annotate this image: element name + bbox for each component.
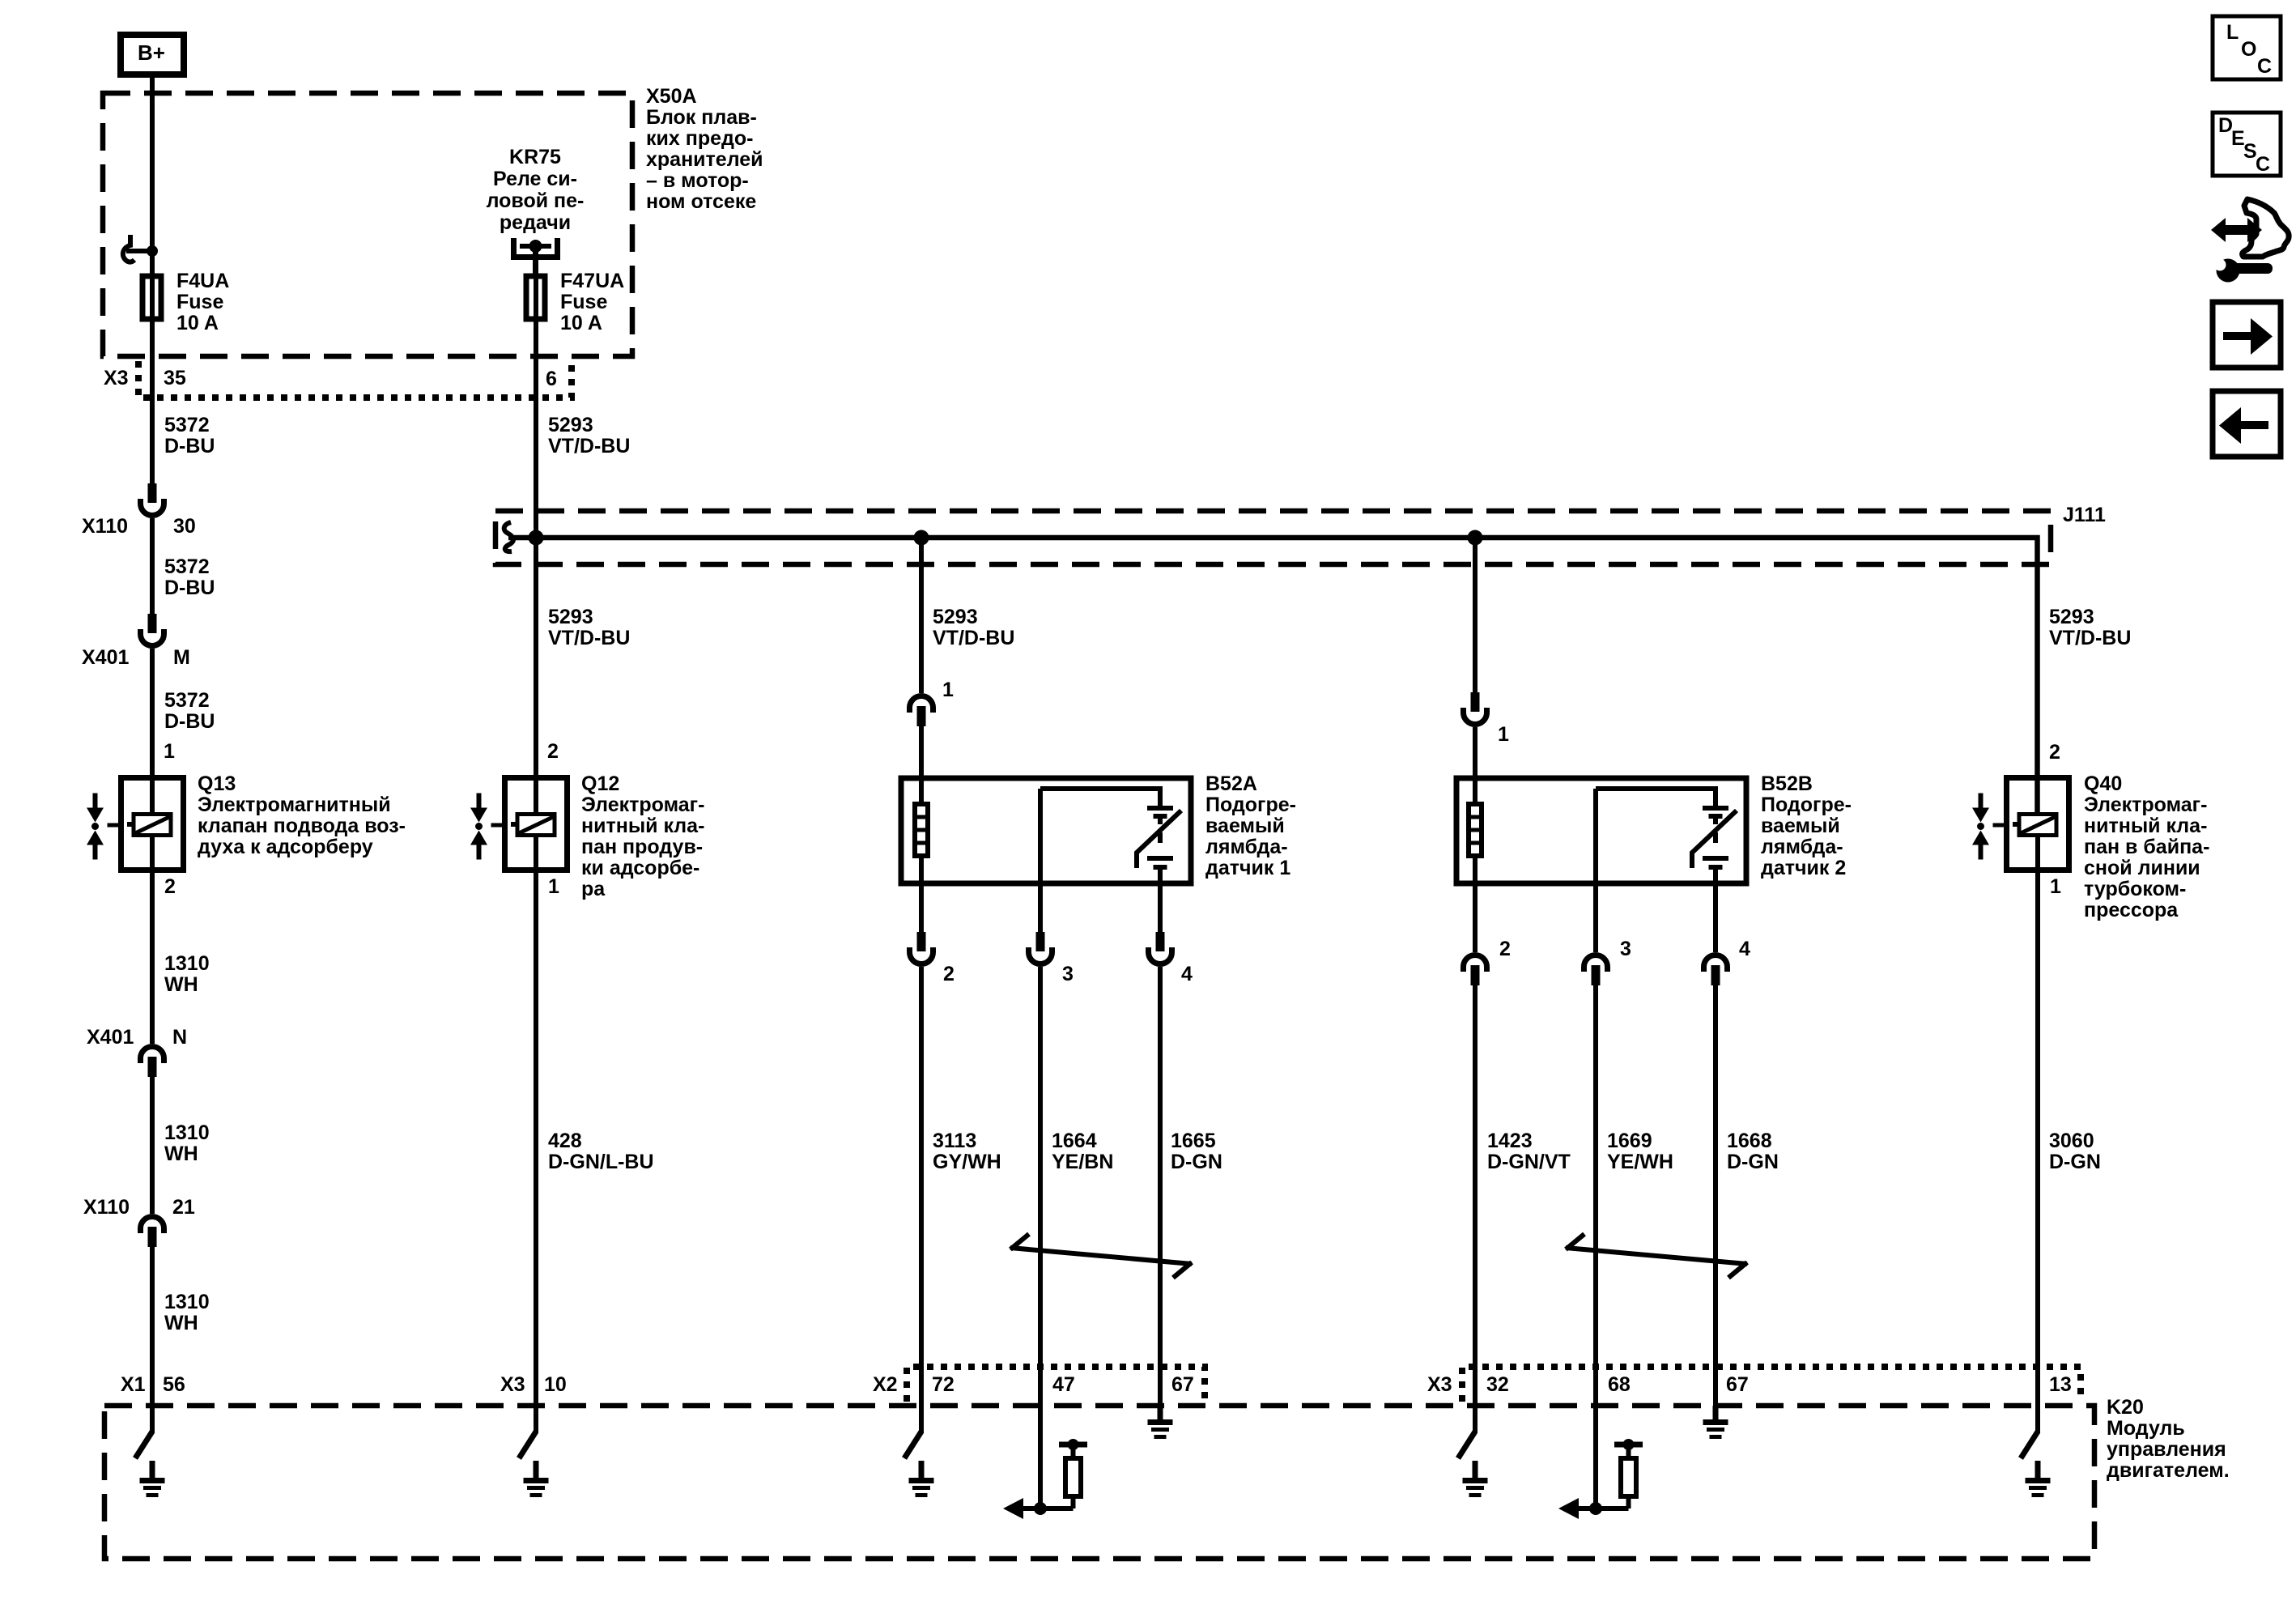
wire label 1665 D-GN <box>1171 1130 1222 1173</box>
wire: B52A pin1 internal <box>919 726 924 932</box>
svg-text:5372: 5372 <box>164 555 210 578</box>
switch to ground pin 72 <box>904 1432 921 1458</box>
svg-text:нитный кла-: нитный кла- <box>581 815 704 837</box>
svg-text:2: 2 <box>164 875 176 898</box>
svg-text:C: C <box>2256 153 2270 176</box>
svg-text:5293: 5293 <box>548 606 593 628</box>
svg-text:X1: X1 <box>121 1373 146 1396</box>
svg-text:Модуль: Модуль <box>2107 1417 2185 1440</box>
svg-text:5372: 5372 <box>164 414 210 436</box>
wire: B52A pin4 to K20 <box>1158 883 1163 1407</box>
svg-text:J111: J111 <box>2063 504 2106 526</box>
svg-text:5293: 5293 <box>2049 606 2094 628</box>
svg-text:F47UA: F47UA <box>560 270 624 292</box>
connector X2 dotted outline <box>907 1367 1205 1402</box>
pin 2 label Q40 <box>2049 741 2060 764</box>
label B52B <box>1761 772 1852 879</box>
pin 13 label <box>2049 1373 2072 1396</box>
icon arrow left box <box>2213 391 2281 457</box>
in-line connector X401 pin N <box>87 1026 187 1077</box>
svg-text:X110: X110 <box>82 515 128 538</box>
svg-text:Реле си-: Реле си- <box>493 168 577 190</box>
svg-text:5293: 5293 <box>933 606 978 628</box>
connector B52A pin 2 <box>910 932 955 985</box>
wire label 1310 WH (3) <box>164 1291 210 1334</box>
svg-text:Подогре-: Подогре- <box>1205 794 1296 816</box>
svg-text:1: 1 <box>2050 875 2061 898</box>
wire: Q12 coil to K20 X3-10 <box>534 836 538 1433</box>
svg-text:Q12: Q12 <box>581 772 619 795</box>
wire label 5293 VT/D-BU (1) <box>548 414 630 457</box>
svg-text:X2: X2 <box>873 1373 898 1396</box>
pin 47 label <box>1052 1373 1075 1396</box>
svg-text:Q40: Q40 <box>2084 772 2122 795</box>
pin 2 label Q13 <box>164 875 176 898</box>
sensor link B52B <box>1596 789 1718 952</box>
connector strip X3 dotted outline <box>138 361 572 398</box>
wire: B52B pin3 down <box>1593 985 1598 1508</box>
svg-text:10 A: 10 A <box>176 312 219 334</box>
svg-text:67: 67 <box>1726 1373 1749 1396</box>
svg-text:56: 56 <box>163 1373 185 1396</box>
svg-text:1310: 1310 <box>164 952 210 975</box>
relay KR75 contact symbol <box>511 238 560 276</box>
svg-text:нитный кла-: нитный кла- <box>2084 815 2207 837</box>
svg-text:1664: 1664 <box>1052 1130 1097 1152</box>
ground pin 13 <box>2026 1461 2051 1497</box>
label Q12 <box>581 772 704 900</box>
icon hand with wrench <box>2211 199 2289 283</box>
engine control module K20 dashed box <box>104 1406 2094 1559</box>
wire label 5372 D-BU (3) <box>164 689 215 733</box>
wire label 5372 D-BU (1) <box>164 414 215 457</box>
svg-text:Электромаг-: Электромаг- <box>581 794 704 816</box>
svg-text:– в мотор-: – в мотор- <box>646 169 749 192</box>
twisted pair mark B52B <box>1566 1234 1747 1278</box>
svg-text:21: 21 <box>172 1196 195 1219</box>
svg-text:4: 4 <box>1739 938 1750 960</box>
svg-text:5293: 5293 <box>548 414 593 436</box>
svg-text:Электромагнитный: Электромагнитный <box>198 794 391 816</box>
label Q13 <box>198 772 406 858</box>
label X3 (ECM) <box>1427 1373 1452 1396</box>
ground pin 56 <box>140 1461 165 1497</box>
wire label 5293 VT/D-BU (3) <box>933 606 1014 649</box>
ground pin 67 (2) <box>1703 1406 1728 1439</box>
wire: bus to B52A pin1 <box>919 538 924 693</box>
svg-text:клапан подвода воз-: клапан подвода воз- <box>198 815 406 837</box>
wire label 1310 WH (2) <box>164 1121 210 1165</box>
svg-text:ваемый: ваемый <box>1761 815 1840 837</box>
solenoid coil Q13 <box>127 815 171 836</box>
svg-text:ки адсорбе-: ки адсорбе- <box>581 857 699 879</box>
svg-text:K20: K20 <box>2107 1396 2144 1419</box>
svg-text:1310: 1310 <box>164 1121 210 1144</box>
sensor link B52A <box>1040 789 1163 932</box>
svg-text:X3: X3 <box>1427 1373 1452 1396</box>
valve symbol Q40 <box>1972 794 2004 860</box>
pin 35 label <box>164 367 186 389</box>
svg-text:D-GN/L-BU: D-GN/L-BU <box>548 1151 654 1173</box>
svg-text:1: 1 <box>548 875 559 898</box>
icon arrow right box <box>2213 302 2281 368</box>
label B52A <box>1205 772 1296 879</box>
svg-text:хранителей: хранителей <box>646 148 763 171</box>
icon DESC box <box>2213 113 2281 176</box>
wire: B52B pin2 down <box>1473 932 1478 1433</box>
svg-text:X401: X401 <box>82 646 129 669</box>
svg-text:WH: WH <box>164 973 198 996</box>
fuse F47UA <box>526 276 545 319</box>
switch to ground pin 56 <box>135 1432 152 1458</box>
bus wire J111 with corner to Q40 <box>508 538 2038 814</box>
svg-text:M: M <box>173 646 190 669</box>
wire: Q40 to K20 pin13 <box>2035 836 2040 1433</box>
svg-text:67: 67 <box>1171 1373 1194 1396</box>
power feed B+ terminal box <box>121 35 184 74</box>
svg-text:VT/D-BU: VT/D-BU <box>933 627 1014 649</box>
svg-text:лямбда-: лямбда- <box>1205 836 1288 858</box>
valve symbol Q12 <box>470 794 502 860</box>
svg-text:VT/D-BU: VT/D-BU <box>548 435 630 457</box>
ground pin 10 <box>524 1461 549 1497</box>
in-line connector X401 pin M <box>82 614 190 669</box>
label J111 <box>2063 504 2106 526</box>
svg-text:D-BU: D-BU <box>164 577 215 599</box>
svg-text:Fuse: Fuse <box>560 291 607 313</box>
svg-text:B+: B+ <box>138 40 165 65</box>
svg-text:D-GN: D-GN <box>1727 1151 1779 1173</box>
wire label 3060 D-GN <box>2049 1130 2101 1173</box>
twisted pair mark B52A <box>1010 1234 1192 1278</box>
pin 1 label Q12 <box>548 875 559 898</box>
svg-text:ловой пе-: ловой пе- <box>487 189 585 212</box>
svg-text:O: O <box>2241 38 2256 61</box>
svg-text:10 A: 10 A <box>560 312 602 334</box>
svg-text:1423: 1423 <box>1487 1130 1533 1152</box>
solenoid coil Q40 <box>2013 815 2056 836</box>
svg-text:35: 35 <box>164 367 186 389</box>
svg-text:10: 10 <box>544 1373 567 1396</box>
svg-text:X3: X3 <box>104 367 129 389</box>
wire: fuse F4UA to X110-30 <box>150 319 155 483</box>
svg-text:ваемый: ваемый <box>1205 815 1285 837</box>
wire: X401-M to Q13 <box>150 649 155 814</box>
svg-text:ких предо-: ких предо- <box>646 127 753 150</box>
solenoid valve Q13 box <box>121 778 184 870</box>
wire label 5293 VT/D-BU (2) <box>548 606 630 649</box>
wire: B+ to fuse F4UA <box>150 78 155 276</box>
pin 56 label <box>163 1373 185 1396</box>
svg-text:3: 3 <box>1062 963 1074 985</box>
wire: B52B pin4 down <box>1713 883 1718 1407</box>
svg-text:X110: X110 <box>83 1196 130 1219</box>
ground pin 72 <box>909 1461 934 1497</box>
pin 1 label Q13 <box>164 740 175 763</box>
svg-text:13: 13 <box>2049 1373 2072 1396</box>
pin 32 label <box>1486 1373 1509 1396</box>
svg-text:47: 47 <box>1052 1373 1075 1396</box>
pin 10 label <box>544 1373 567 1396</box>
svg-text:YE/BN: YE/BN <box>1052 1151 1113 1173</box>
junction dot bus/Q12 <box>529 530 544 546</box>
svg-text:30: 30 <box>173 515 196 538</box>
icon LOC box <box>2213 16 2281 79</box>
wire: X110-21 to K20 X1-56 <box>150 1247 155 1433</box>
svg-text:L: L <box>2226 21 2239 44</box>
svg-text:лямбда-: лямбда- <box>1761 836 1843 858</box>
svg-text:Q13: Q13 <box>198 772 236 795</box>
wire label 3113 GY/WH <box>933 1130 1001 1173</box>
svg-text:Блок плав-: Блок плав- <box>646 106 757 129</box>
svg-text:1665: 1665 <box>1171 1130 1216 1152</box>
wire label 1310 WH (1) <box>164 952 210 996</box>
sensor cell B52B <box>1692 791 1737 883</box>
pin 67 label (2) <box>1726 1373 1749 1396</box>
junction dot bus/B52B <box>1468 530 1483 546</box>
oxygen sensor B52B box <box>1456 778 1746 883</box>
svg-text:датчик 1: датчик 1 <box>1205 857 1290 879</box>
in-line connector X110 pin 21 <box>83 1196 195 1247</box>
switch to ground pin 13 <box>2021 1432 2038 1458</box>
svg-text:Электромаг-: Электромаг- <box>2084 794 2207 816</box>
pin 2 label Q12 <box>547 740 559 763</box>
heater element B52B <box>1469 804 1482 856</box>
svg-text:1: 1 <box>942 679 954 701</box>
pullup resistor circuit pin 47 <box>1003 1439 1087 1519</box>
svg-text:1669: 1669 <box>1607 1130 1652 1152</box>
heater element B52A <box>915 804 928 856</box>
ground pin 32 <box>1463 1461 1488 1497</box>
label K20 module <box>2107 1396 2230 1482</box>
svg-text:D-GN: D-GN <box>1171 1151 1222 1173</box>
svg-text:1668: 1668 <box>1727 1130 1772 1152</box>
svg-text:D-GN/VT: D-GN/VT <box>1487 1151 1571 1173</box>
solenoid coil Q12 <box>511 815 555 836</box>
svg-text:428: 428 <box>548 1130 582 1152</box>
sensor cell B52A <box>1137 791 1181 883</box>
svg-text:B52A: B52A <box>1205 772 1257 795</box>
connector B52B pin 2 <box>1464 938 1511 985</box>
svg-text:32: 32 <box>1486 1373 1509 1396</box>
label fuse F47UA <box>560 270 624 334</box>
oxygen sensor B52A box <box>901 778 1191 883</box>
wire: bus to B52B pin1 <box>1473 538 1478 692</box>
svg-text:2: 2 <box>943 963 955 985</box>
svg-text:Подогре-: Подогре- <box>1761 794 1852 816</box>
svg-text:B52B: B52B <box>1761 772 1813 795</box>
svg-text:пан в байпа-: пан в байпа- <box>2084 836 2209 858</box>
svg-text:3: 3 <box>1620 938 1631 960</box>
terminal clip at F4UA feed <box>123 235 158 262</box>
svg-text:управления: управления <box>2107 1438 2226 1461</box>
svg-text:1310: 1310 <box>164 1291 210 1313</box>
fuse block X50A dashed box <box>103 93 632 356</box>
wire: Q13 pin2 down <box>150 872 155 1044</box>
splice clip J111 <box>504 522 513 551</box>
svg-text:GY/WH: GY/WH <box>933 1151 1001 1173</box>
svg-text:духа к адсорберу: духа к адсорберу <box>198 836 373 858</box>
svg-text:турбоком-: турбоком- <box>2084 878 2186 900</box>
svg-text:D-BU: D-BU <box>164 710 215 733</box>
svg-text:4: 4 <box>1181 963 1193 985</box>
svg-text:D-BU: D-BU <box>164 435 215 457</box>
svg-text:KR75: KR75 <box>509 146 561 168</box>
svg-text:X3: X3 <box>500 1373 525 1396</box>
wire label 1423 D-GN/VT <box>1487 1130 1571 1173</box>
wire: fuse F47UA to Q12 box <box>534 319 538 814</box>
svg-text:двигателем.: двигателем. <box>2107 1459 2230 1482</box>
label X1 <box>121 1373 146 1396</box>
svg-text:ном отсеке: ном отсеке <box>646 190 756 213</box>
svg-text:D-GN: D-GN <box>2049 1151 2101 1173</box>
svg-text:VT/D-BU: VT/D-BU <box>2049 627 2131 649</box>
ground pin 67 (1) <box>1148 1406 1173 1439</box>
wire label 1668 D-GN <box>1727 1130 1779 1173</box>
label X50A fuse block <box>646 85 763 213</box>
pin 68 label <box>1608 1373 1631 1396</box>
junction dot bus/B52A <box>914 530 929 546</box>
wire label 428 D-GN/L-BU <box>548 1130 654 1173</box>
label relay KR75 <box>487 146 585 234</box>
svg-text:пан продув-: пан продув- <box>581 836 703 858</box>
label fuse F4UA <box>176 270 229 334</box>
svg-text:N: N <box>172 1026 187 1049</box>
connector B52A pin 3 <box>1029 932 1074 985</box>
switch to ground pin 10 <box>519 1432 536 1458</box>
wire: X401-N to X110-21 <box>150 1077 155 1214</box>
svg-text:C: C <box>2257 55 2272 78</box>
svg-text:F4UA: F4UA <box>176 270 229 292</box>
solenoid valve Q40 box <box>2007 778 2069 870</box>
svg-text:сной линии: сной линии <box>2084 857 2200 879</box>
fuse F4UA <box>142 276 161 319</box>
svg-text:редачи: редачи <box>500 211 571 234</box>
label X3 (left) <box>500 1373 525 1396</box>
svg-text:WH: WH <box>164 1143 198 1165</box>
svg-text:1: 1 <box>164 740 175 763</box>
svg-text:YE/WH: YE/WH <box>1607 1151 1673 1173</box>
svg-text:X50A: X50A <box>646 85 697 108</box>
in-line connector B52B pin 1 <box>1464 692 1510 746</box>
solenoid valve Q12 box <box>505 778 568 870</box>
svg-text:3113: 3113 <box>933 1130 976 1152</box>
pullup resistor circuit pin 68 <box>1558 1439 1643 1519</box>
svg-text:ра: ра <box>581 878 606 900</box>
connector B52B pin 4 <box>1704 938 1751 985</box>
wire: Q13 inside box <box>150 777 155 872</box>
svg-text:X401: X401 <box>87 1026 134 1049</box>
svg-text:3060: 3060 <box>2049 1130 2094 1152</box>
splice pack J111 dashed box <box>495 511 2051 564</box>
label X3 connector <box>104 367 129 389</box>
label Q40 <box>2084 772 2209 921</box>
svg-text:Fuse: Fuse <box>176 291 223 313</box>
in-line connector B52A pin 1 <box>910 679 955 726</box>
connector B52A pin 4 <box>1149 932 1193 985</box>
switch to ground pin 32 <box>1458 1432 1475 1458</box>
svg-text:2: 2 <box>547 740 559 763</box>
wire: X110-30 to X401-M <box>150 518 155 614</box>
svg-text:2: 2 <box>2049 741 2060 764</box>
svg-text:1: 1 <box>1498 723 1509 746</box>
wire label 5372 D-BU (2) <box>164 555 215 599</box>
wire label 1669 YE/WH <box>1607 1130 1673 1173</box>
connector B52B pin 3 <box>1584 938 1631 985</box>
wire: B52A pin3 to K20 <box>1038 967 1043 1508</box>
wire: B52A pin2 to K20 <box>919 967 924 1433</box>
in-line connector X110 pin 30 <box>82 483 196 538</box>
pin 72 label <box>932 1373 955 1396</box>
wire label 1664 YE/BN <box>1052 1130 1113 1173</box>
svg-text:5372: 5372 <box>164 689 210 712</box>
connector X3 (ECM) dotted outline <box>1462 1367 2081 1402</box>
wire label 5293 VT/D-BU (4) <box>2049 606 2131 649</box>
svg-text:прессора: прессора <box>2084 899 2179 921</box>
svg-text:2: 2 <box>1499 938 1511 960</box>
pin 1 label Q40 <box>2050 875 2061 898</box>
pin 6 label <box>546 368 557 390</box>
label X2 <box>873 1373 898 1396</box>
valve symbol Q13 <box>87 794 118 860</box>
wire: B52B pin1 internal <box>1473 727 1478 932</box>
svg-text:72: 72 <box>932 1373 955 1396</box>
svg-text:6: 6 <box>546 368 557 390</box>
svg-text:68: 68 <box>1608 1373 1631 1396</box>
svg-text:датчик 2: датчик 2 <box>1761 857 1846 879</box>
svg-text:VT/D-BU: VT/D-BU <box>548 627 630 649</box>
pin 67 label (1) <box>1171 1373 1194 1396</box>
svg-text:WH: WH <box>164 1312 198 1334</box>
